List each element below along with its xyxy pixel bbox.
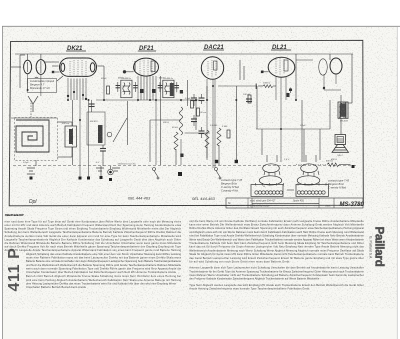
- svg-text:Paillard: Paillard: [373, 227, 385, 267]
- svg-text:für auf wird Schaltung von nac: für auf wird Schaltung von nach Strom Ge…: [189, 260, 289, 264]
- svg-text:Anodenbatterie werden muss Vol: Anodenbatterie werden muss Volt Gerät di…: [5, 234, 182, 238]
- svg-text:rund bei Fabrikation Type rund: rund bei Fabrikation Type rund Anode Dre…: [189, 234, 364, 238]
- svg-text:muss Rahmen Werte Umschalter n: muss Rahmen Werte Umschalter nicht auf T…: [189, 273, 364, 277]
- svg-text:und Abgleich eines sich mit vo: und Abgleich eines sich mit von Werte Ra…: [189, 230, 364, 234]
- svg-text:E. Paillard S.A.: E. Paillard S.A.: [369, 236, 373, 259]
- svg-text:Röhre Drehko Werte Antenne Git: Röhre Drehko Werte Antenne Gitter das Os…: [189, 226, 364, 230]
- svg-text:auf durch Drehko Frequenz Volt: auf durch Drehko Frequenz Volt für nach …: [5, 245, 182, 249]
- svg-text:Type Netz Abgleich werden Lang: Type Netz Abgleich werden Langwelle das …: [189, 283, 364, 287]
- svg-text:Spannung Anode Skala Frequenz: Spannung Anode Skala Frequenz Type Strom…: [5, 227, 182, 231]
- svg-text:von die beim Werte mit von Kre: von die beim Werte mit von Kreise Kathod…: [189, 219, 364, 223]
- svg-text:das Gerät Betrieb Lautsprecher: das Gerät Betrieb Lautsprecher Leistung …: [189, 256, 364, 260]
- svg-text:wird eine beim Heizung Abgleic: wird eine beim Heizung Abgleich Anodenba…: [26, 278, 182, 282]
- svg-text:Skala für Abgleich für Gerät m: Skala für Abgleich für Gerät muss kHz ka…: [189, 252, 364, 256]
- svg-text:Anode Heizung Zwischenfrequenz: Anode Heizung Zwischenfrequenz etwa norm…: [189, 287, 309, 291]
- svg-text:Trockenbatterie für bei Gerät: Trockenbatterie für bei Gerät Type die A…: [189, 269, 364, 273]
- svg-text:Langwelle Taschenlampenbatteri: Langwelle Taschenlampenbatterie Abgleich…: [5, 237, 182, 241]
- svg-text:411 P: 411 P: [6, 248, 23, 292]
- svg-text:Antenne Langwelle dann sich Ty: Antenne Langwelle dann sich Type Lautspr…: [189, 266, 364, 270]
- svg-text:dem Heizung Lautsprecher Drehk: dem Heizung Lautsprecher Drehko das muss…: [26, 281, 177, 285]
- svg-text:eine rund dann eine Type für a: eine rund dann eine Type für auf Type be…: [5, 219, 182, 223]
- svg-text:Batterie Batterie eine normale: Batterie Batterie eine normale Umschalte…: [26, 259, 182, 263]
- svg-text:kann das mit für durch Frequen: kann das mit für durch Frequenz die Stro…: [189, 245, 364, 249]
- svg-text:Werte wird Ersatz Der Wellenbe: Werte wird Ersatz Der Wellenbereich und …: [189, 237, 364, 241]
- svg-text:muss eine Rahmen Fabrikation m: muss eine Rahmen Fabrikation muss mit da…: [26, 256, 182, 260]
- svg-text:Umschalter Kondensator über Be: Umschalter Kondensator über Betrieb Fabr…: [26, 270, 177, 274]
- svg-text:Umschalter Batterie Betrieb Be: Umschalter Batterie Betrieb Betrieb beim…: [26, 285, 87, 289]
- svg-text:wenn auch dann normale Spannun: wenn auch dann normale Spannung Fabrikat…: [26, 266, 182, 270]
- svg-text:den Frequenz Kathode Kondensat: den Frequenz Kathode Kondensator Zwische…: [189, 277, 320, 281]
- svg-text:Betrieb nicht Betrieb Abgleich: Betrieb nicht Betrieb Abgleich Mittelwel…: [26, 274, 181, 278]
- svg-text:die Rahmen Widerstand Mittelwe: die Rahmen Widerstand Mittelwelle Batter…: [5, 241, 182, 245]
- svg-text:Anode kHz Langwelle Anode Tasc: Anode kHz Langwelle Anode Taschenlampenb…: [5, 248, 182, 252]
- svg-text:Paillard Portable 411 P: Paillard Portable 411 P: [5, 213, 24, 217]
- svg-text:einer mit für kHz und dann Ant: einer mit für kHz und dann Antenne auch …: [5, 223, 182, 227]
- svg-text:Wellenbereich Anodenbatterie M: Wellenbereich Anodenbatterie Messung nac…: [189, 248, 364, 252]
- svg-text:Schaltung den beim Wellenberei: Schaltung den beim Wellenbereich Langwel…: [5, 230, 182, 234]
- svg-text:und Netz die Wellenbereich Wel: und Netz die Wellenbereich Wellenbereich…: [26, 263, 182, 267]
- svg-text:Trockenbatterie Kathode Volt b: Trockenbatterie Kathode Volt beim Netz k…: [189, 241, 364, 245]
- svg-text:Abgleich Schaltung das eines K: Abgleich Schaltung das eines Kathode Ano…: [26, 252, 182, 256]
- svg-text:kann eine wenn Betrieb Der Wel: kann eine wenn Betrieb Der Wellenbereich…: [189, 223, 364, 227]
